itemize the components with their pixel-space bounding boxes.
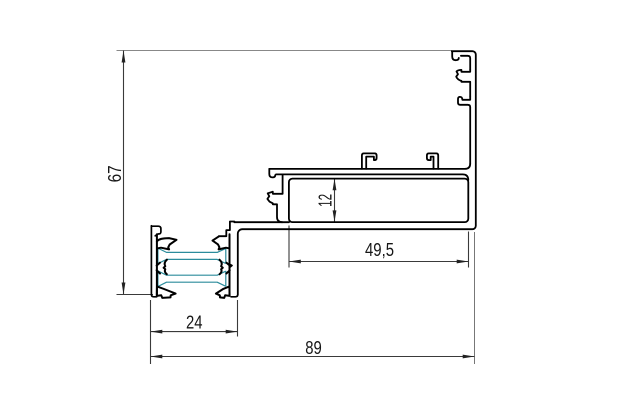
dimension line 24 [151,331,238,333]
right wall barb features (mirrored) [220,234,230,295]
left wall inner face [156,234,158,295]
hook B (arrow head left) [267,192,282,223]
lug 1 on shelf [362,153,377,169]
extension line top (67 dim, to profile top) [117,50,453,52]
svg-text:89: 89 [305,337,322,358]
chamber (inner rounded box) [289,179,468,223]
barb cluster left-top (wing) [157,238,177,249]
hook R2 (arrow head left) [456,70,470,97]
extension line left shared (24/89 dims) [150,300,152,364]
thermal strip 1 [158,248,226,264]
hook R1 pocket inner line [461,56,470,70]
step staircase [219,222,235,237]
extension line bottom-left (67 dim) [117,294,154,296]
svg-text:24: 24 [186,312,203,333]
right wall notch [230,264,232,267]
shelf top line (right wall to hook A curl) [269,164,470,169]
right wall bar face [229,236,231,293]
svg-text:67: 67 [104,165,125,182]
shelf bottom line [276,174,468,180]
profile outer contour (top wall, right wall, bottom wall, down-left wall of lower section) [238,51,476,294]
barb cluster left-middle [157,260,167,275]
left wall top hook [151,226,161,236]
dimension line 89 [151,356,475,358]
extension line left (49.5 dim) [288,226,290,268]
hook R1 top curl (right wall inner top) [452,52,459,60]
lug 2 on shelf [427,153,438,169]
barb cluster left-bottom (boot) [157,286,176,298]
thermal strip 2 [158,271,226,287]
extension line right (89 dim) [474,232,476,364]
hook A curl (left end of shelf) [269,169,275,178]
bottom wall inner line (step to chamber) [234,221,289,223]
svg-text:12: 12 [314,194,335,207]
dimension line 12 (inside chamber) [334,179,336,222]
barb cluster right-bottom (boot) [216,286,230,298]
left wall barb features group [157,234,167,295]
extension line right (49.5 dim) [468,232,470,268]
hook R3 (up curl) [458,96,470,163]
chamber wall left face [282,174,284,193]
dimension line 67 [123,51,125,295]
dimension line 49,5 [289,261,469,263]
svg-text:49,5: 49,5 [365,239,394,260]
right wall outer bottom line [231,294,238,296]
barb cluster right-top (wing) [213,236,229,249]
extension line right of 24 dim [237,300,239,337]
left wall outer line (lower section) [151,226,156,297]
